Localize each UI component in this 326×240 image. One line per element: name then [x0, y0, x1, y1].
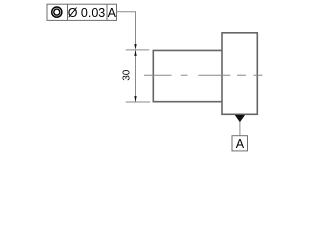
concentricity symbol (two concentric circles): [52, 7, 62, 17]
svg-text:A: A: [236, 137, 245, 151]
leader arrowhead: [134, 44, 136, 50]
svg-text:30: 30: [121, 69, 132, 81]
feature control frame outer box: [47, 4, 117, 20]
dimension line: [135, 50, 137, 102]
svg-text:Ø 0.03: Ø 0.03: [68, 6, 106, 20]
svg-text:A: A: [108, 6, 117, 20]
datum box: [232, 136, 248, 151]
datum leader line: [239, 122, 241, 136]
centerline (dash-dot axis): [144, 74, 263, 76]
extension line bottom: [126, 101, 150, 103]
dimension arrowhead top: [134, 50, 136, 56]
part outline: shaft body (small cylinder): [153, 50, 222, 101]
datum feature triangle: [235, 115, 245, 122]
dimension arrowhead bottom: [134, 96, 136, 102]
part outline: flange (large cylinder): [222, 33, 257, 115]
extension line top: [126, 49, 150, 51]
leader line from feature control frame: [117, 12, 136, 45]
